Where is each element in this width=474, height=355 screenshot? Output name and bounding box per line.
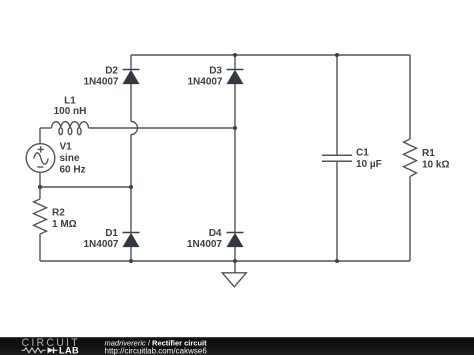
wire C1 top bbox=[336, 55, 338, 155]
wire D2 top stub bbox=[130, 55, 132, 70]
svg-text:1 MΩ: 1 MΩ bbox=[52, 219, 77, 230]
wire L1 left lead bbox=[40, 127, 52, 129]
wire V1 top lead bbox=[39, 128, 41, 144]
svg-text:R2: R2 bbox=[52, 208, 65, 219]
wire R2 top stub bbox=[39, 187, 41, 199]
svg-text:1N4007: 1N4007 bbox=[187, 77, 222, 88]
wire top rail bbox=[131, 54, 410, 56]
logo resistor zigzag bbox=[22, 348, 46, 353]
svg-text:1N4007: 1N4007 bbox=[83, 239, 118, 250]
wire D2 to hop bbox=[130, 84, 132, 122]
svg-text:R1: R1 bbox=[422, 148, 435, 159]
diode D2 bbox=[123, 70, 140, 84]
diode D4 bbox=[227, 233, 244, 247]
wire V1 to bridge node A bbox=[40, 186, 131, 188]
diode D1 bbox=[123, 233, 140, 247]
node top rail / D3 bbox=[233, 53, 237, 57]
svg-text:LAB: LAB bbox=[59, 346, 79, 355]
wire D3 to D4 bbox=[234, 84, 236, 233]
wire D3 top stub bbox=[234, 55, 236, 70]
node A: D1-D2 junction bbox=[129, 185, 133, 189]
wire V1 bottom lead bbox=[39, 172, 41, 187]
inductor L1 bbox=[52, 122, 89, 135]
capacitor C1 bbox=[322, 155, 352, 161]
svg-text:sine: sine bbox=[60, 153, 80, 164]
resistor R1 bbox=[404, 139, 417, 177]
svg-text:D1: D1 bbox=[105, 228, 118, 239]
wire R1 bottom bbox=[409, 177, 411, 262]
svg-text:100 nH: 100 nH bbox=[54, 106, 87, 117]
footer bar bbox=[0, 337, 474, 355]
resistor R2 bbox=[34, 199, 47, 234]
svg-text:D4: D4 bbox=[209, 228, 222, 239]
node bottom rail / C1 bbox=[335, 259, 339, 263]
wire R1 top bbox=[409, 55, 411, 139]
source V1 bbox=[26, 144, 55, 173]
wire hop over L1 net bbox=[131, 122, 138, 135]
node bottom rail / D1 bbox=[129, 259, 133, 263]
wire hop to D1 bbox=[130, 135, 132, 233]
node V1- / R2 bbox=[38, 185, 42, 189]
svg-text:D2: D2 bbox=[105, 66, 118, 77]
svg-text:C1: C1 bbox=[356, 148, 369, 159]
svg-text:V1: V1 bbox=[60, 142, 73, 153]
svg-text:1N4007: 1N4007 bbox=[187, 239, 222, 250]
wire C1 bottom bbox=[336, 161, 338, 261]
wire L1 right lead to node B bbox=[89, 127, 236, 129]
node bottom rail / D4 / ground bbox=[233, 259, 237, 263]
svg-text:1N4007: 1N4007 bbox=[83, 77, 118, 88]
wire D4 to bottom rail bbox=[234, 247, 236, 262]
diode D3 bbox=[227, 70, 244, 84]
wire R2 bottom stub bbox=[39, 234, 41, 261]
svg-text:10 kΩ: 10 kΩ bbox=[422, 160, 449, 171]
svg-text:http://circuitlab.com/cakwse6: http://circuitlab.com/cakwse6 bbox=[105, 346, 208, 355]
node B: L1 / D3-D4 bbox=[233, 126, 237, 130]
svg-text:10 µF: 10 µF bbox=[356, 159, 382, 170]
node top rail / C1 bbox=[335, 53, 339, 57]
wire D1 to bottom rail bbox=[130, 247, 132, 262]
svg-text:D3: D3 bbox=[209, 66, 222, 77]
ground bbox=[222, 261, 246, 287]
svg-text:60 Hz: 60 Hz bbox=[60, 165, 86, 176]
logo diode symbol bbox=[48, 347, 58, 353]
wire bottom rail bbox=[40, 260, 410, 262]
